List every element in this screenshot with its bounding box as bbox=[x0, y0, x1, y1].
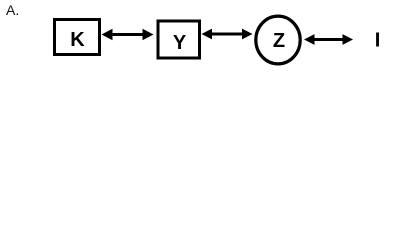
svg-text:Y: Y bbox=[173, 32, 187, 54]
arrow Y-Z bbox=[202, 29, 253, 40]
arrow Z-I bbox=[304, 34, 353, 45]
arrow K-Y bbox=[102, 29, 154, 40]
circle Z bbox=[256, 16, 300, 64]
svg-text:I: I bbox=[375, 29, 381, 51]
svg-text:A.: A. bbox=[6, 2, 19, 18]
svg-text:K: K bbox=[70, 29, 85, 51]
label A. bbox=[6, 2, 19, 18]
svg-text:Z: Z bbox=[273, 30, 285, 52]
box K bbox=[55, 20, 100, 55]
box Y bbox=[158, 21, 200, 58]
node I bbox=[375, 29, 381, 51]
